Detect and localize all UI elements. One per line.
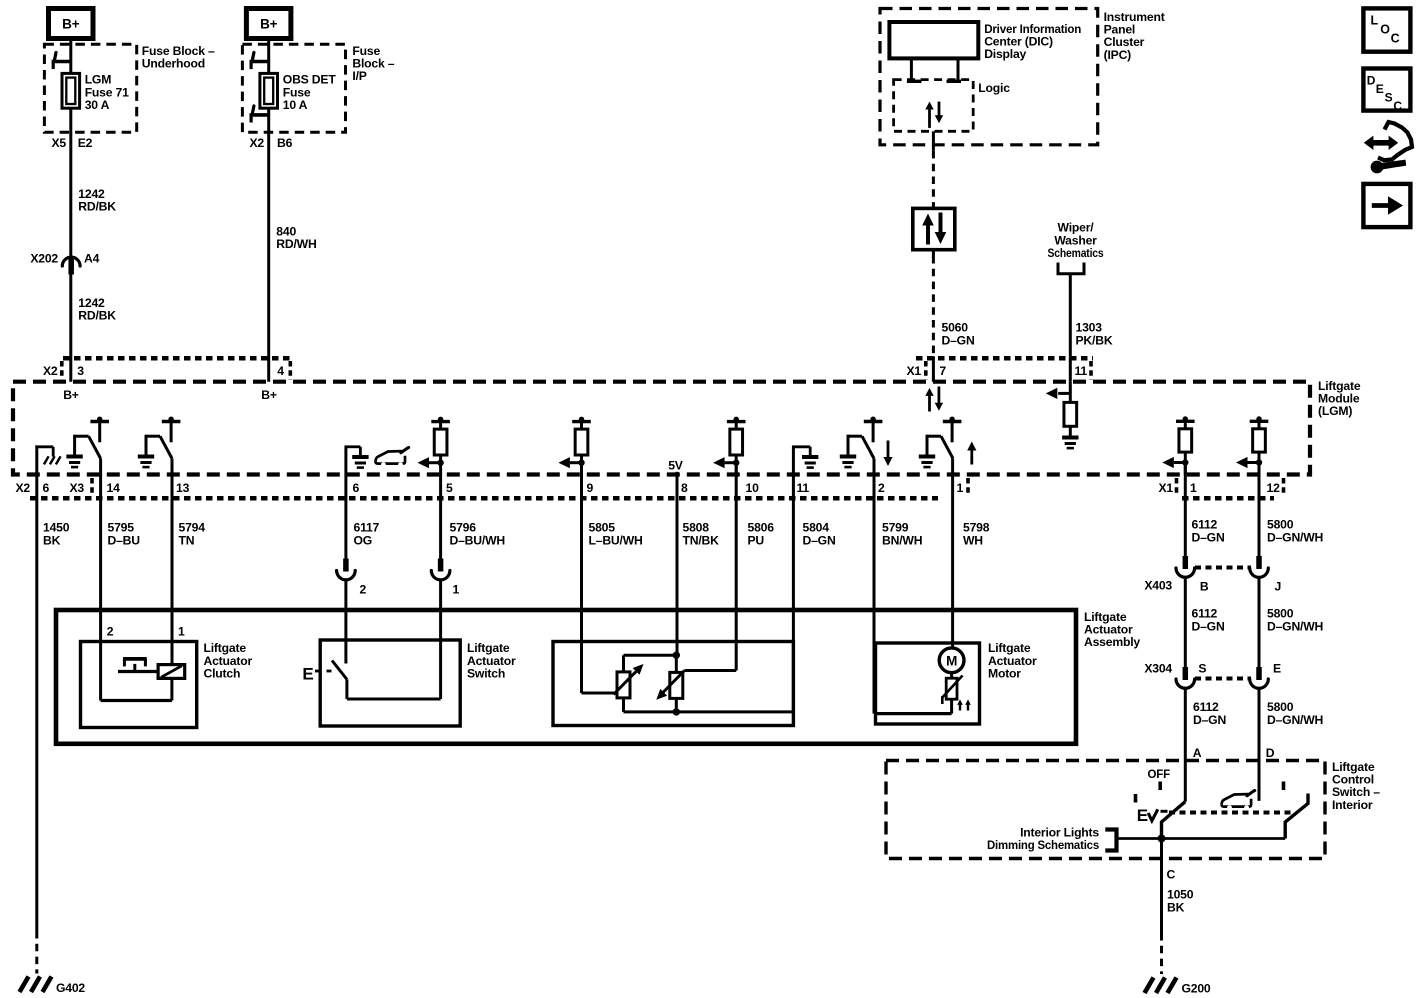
svg-text:X1: X1 <box>906 364 921 378</box>
LGM sensed input resistor pin 5 <box>418 417 450 475</box>
label LGM Fuse 71 30 A <box>85 73 129 112</box>
svg-text:Interior: Interior <box>1332 798 1373 812</box>
svg-text:X2: X2 <box>43 364 58 378</box>
svg-text:B+: B+ <box>63 388 79 402</box>
connector X2 row (pins 3,4) <box>43 358 290 380</box>
svg-text:M: M <box>946 653 957 668</box>
svg-text:D–BU: D–BU <box>108 533 141 547</box>
switch position OFF <box>1148 769 1171 790</box>
label Fuse Block - Underhood <box>142 44 215 71</box>
svg-text:1: 1 <box>178 625 185 639</box>
wire 5798 WH pin1 to motor <box>953 459 990 649</box>
ground G200 <box>1145 978 1211 996</box>
svg-text:B6: B6 <box>277 136 293 150</box>
label Logic <box>978 81 1010 95</box>
connector X304 pin E <box>1250 662 1281 689</box>
label Fuse Block - I/P <box>352 44 394 83</box>
svg-text:11: 11 <box>1075 364 1088 378</box>
svg-text:S: S <box>1198 662 1206 676</box>
svg-text:C: C <box>1391 32 1400 46</box>
svg-text:8: 8 <box>681 481 688 495</box>
svg-text:Display: Display <box>984 47 1026 61</box>
in-line connector X202 pin A4 <box>30 252 99 275</box>
svg-text:1: 1 <box>453 583 460 597</box>
svg-text:E: E <box>302 664 313 683</box>
wire 1050 BK pin C to G200 <box>1162 839 1194 975</box>
wire fuse to X202 <box>69 108 72 257</box>
svg-text:14: 14 <box>107 481 121 495</box>
svg-text:E: E <box>1137 806 1148 825</box>
svg-text:2: 2 <box>360 583 367 597</box>
fuse clip terminal top (OBS DET) <box>250 53 270 70</box>
svg-text:X2: X2 <box>249 136 264 150</box>
legend icon DESC <box>1363 69 1410 114</box>
in-line connector pin 1 (switch) <box>431 559 459 597</box>
liftgate icon in LGM <box>376 448 409 468</box>
off-page bracket wiper circuit <box>1058 263 1084 284</box>
svg-text:C: C <box>1167 868 1176 882</box>
fuse OBS DET Fuse 10 A <box>260 73 278 108</box>
svg-text:Dimming Schematics: Dimming Schematics <box>987 838 1099 852</box>
wire 5795 D-BU pin14 to clutch <box>101 459 141 701</box>
motor thermal protector <box>942 673 971 714</box>
svg-text:D–GN: D–GN <box>1193 713 1226 727</box>
wire label 5060 D-GN <box>942 321 975 348</box>
svg-text:9: 9 <box>587 481 594 495</box>
svg-text:5: 5 <box>446 481 453 495</box>
off-page bracket interior lights dimming <box>1105 830 1116 851</box>
svg-text:Assembly: Assembly <box>1084 635 1140 649</box>
svg-text:O: O <box>1380 23 1390 37</box>
liftgate position sensor box <box>553 642 793 726</box>
wire 5805 L-BU/WH pin9 to position sensor <box>582 463 643 693</box>
svg-text:TN/BK: TN/BK <box>683 533 720 547</box>
svg-text:B: B <box>1200 580 1209 594</box>
label Liftgate Actuator Clutch <box>204 641 253 680</box>
connector X1 row (pins 7,11) <box>906 358 1093 380</box>
svg-text:6: 6 <box>353 481 360 495</box>
svg-text:30 A: 30 A <box>85 98 110 112</box>
instrument panel cluster dashed box <box>880 9 1098 145</box>
svg-text:D–GN/WH: D–GN/WH <box>1267 530 1323 544</box>
svg-text:PK/BK: PK/BK <box>1076 333 1113 347</box>
svg-text:10 A: 10 A <box>283 98 308 112</box>
svg-text:2: 2 <box>107 625 114 639</box>
potentiometer 1 (left) <box>614 664 644 698</box>
svg-text:BK: BK <box>43 533 61 547</box>
svg-text:D–GN: D–GN <box>803 533 836 547</box>
legend icon LOC <box>1363 8 1410 51</box>
svg-text:I/P: I/P <box>352 69 366 83</box>
in-line connector pin 2 (switch) <box>337 559 367 597</box>
power terminal B+ (I/P) <box>246 9 291 39</box>
LGM pull-up resistor to ground pin 11 X1 <box>1046 382 1079 448</box>
svg-text:(IPC): (IPC) <box>1104 48 1132 62</box>
liftgate actuator switch <box>302 640 460 726</box>
wire 5800 D-GN/WH pin12 X1 to X403 <box>1259 463 1323 557</box>
control switch blade D <box>1285 794 1308 839</box>
svg-text:D–GN/WH: D–GN/WH <box>1267 619 1323 633</box>
svg-text:L–BU/WH: L–BU/WH <box>589 533 643 547</box>
svg-text:OFF: OFF <box>1148 769 1171 781</box>
svg-text:RD/BK: RD/BK <box>78 309 116 323</box>
wire label 1242 RD/BK lower <box>78 296 116 323</box>
svg-text:A: A <box>1193 746 1202 760</box>
svg-text:B+: B+ <box>261 388 277 402</box>
label Instrument Panel Cluster (IPC) <box>1104 10 1165 62</box>
wire 5794 TN pin13 to clutch <box>172 459 205 665</box>
wire label 1303 PK/BK <box>1076 321 1113 348</box>
logic dashed box <box>894 80 974 132</box>
svg-text:Clutch: Clutch <box>204 667 241 681</box>
connector X304 link <box>1195 677 1251 681</box>
svg-text:TN: TN <box>179 533 195 547</box>
wire label 1242 RD/BK upper <box>78 187 116 214</box>
svg-text:OG: OG <box>354 533 373 547</box>
wire 6117 OG pin6 to switch <box>346 475 380 559</box>
label Liftgate Control Switch - Interior <box>1332 760 1380 812</box>
svg-text:(LGM): (LGM) <box>1318 404 1352 418</box>
svg-text:RD/WH: RD/WH <box>276 237 316 251</box>
fuse LGM Fuse 71 30 A <box>62 73 80 108</box>
svg-text:12: 12 <box>1267 481 1281 495</box>
LGM sensed resistor pin 12 X1 <box>1236 416 1268 474</box>
svg-text:B+: B+ <box>260 17 278 32</box>
svg-text:E: E <box>1273 662 1281 676</box>
svg-text:7: 7 <box>939 364 946 378</box>
legend icon arrow <box>1363 184 1410 227</box>
svg-text:G402: G402 <box>56 981 85 995</box>
label OBS DET Fuse 10 A <box>283 73 337 112</box>
svg-text:A4: A4 <box>84 252 100 266</box>
serial data wire from DIC <box>932 131 935 208</box>
node 5V supply <box>668 459 684 475</box>
svg-text:X3: X3 <box>70 481 85 495</box>
svg-text:BK: BK <box>1167 900 1185 914</box>
wire 6117 OG below connector <box>344 580 347 664</box>
DIC display pedestal <box>907 58 961 81</box>
wire 6112 D-GN X304 to switch pin A <box>1185 689 1226 802</box>
LGM output switch pin 2 with down arrow <box>840 417 893 468</box>
svg-text:X2: X2 <box>15 481 30 495</box>
wire fuse to LGM pin 4 <box>267 108 270 382</box>
svg-text:Schematics: Schematics <box>1048 246 1104 260</box>
svg-text:X1: X1 <box>1158 481 1173 495</box>
label Liftgate Module (LGM) <box>1318 379 1361 418</box>
LGM bottom connector strip <box>30 478 1284 498</box>
liftgate actuator motor box <box>874 643 980 724</box>
wire 1450 BK to G402 <box>37 475 70 974</box>
svg-text:Motor: Motor <box>988 667 1021 681</box>
ground G402 <box>20 977 86 996</box>
fuse clip terminal top (LGM fuse) <box>52 53 72 70</box>
mechanical link dotted <box>1169 811 1291 815</box>
svg-text:X202: X202 <box>30 252 58 266</box>
LGM sensed input resistor pin 9 <box>558 417 590 475</box>
serial data symbol box <box>913 208 955 249</box>
svg-text:E2: E2 <box>78 136 93 150</box>
node B+ pin3 <box>63 388 79 402</box>
motor M1 <box>939 648 964 673</box>
node B+ pin4 <box>261 388 277 402</box>
liftgate icon in control switch <box>1222 791 1255 811</box>
svg-text:PU: PU <box>748 533 765 547</box>
svg-text:13: 13 <box>176 481 190 495</box>
svg-text:Logic: Logic <box>978 81 1010 95</box>
label Interior Lights Dimming Schematics <box>987 826 1099 853</box>
DIC display box <box>889 22 978 58</box>
liftgate actuator clutch <box>81 625 197 728</box>
label Driver Information Center (DIC) Display <box>984 22 1081 61</box>
wire common to blades <box>1117 835 1285 843</box>
wire 5796 D-BU/WH pin5 to switch <box>441 475 505 559</box>
liftgate control switch interior dashed box <box>886 761 1325 859</box>
svg-text:10: 10 <box>746 481 760 495</box>
LGM internal ground pin 11 <box>792 447 818 475</box>
wire 5800 D-GN/WH X403 to X304 <box>1259 578 1323 668</box>
svg-text:11: 11 <box>797 481 810 495</box>
svg-text:D: D <box>1266 746 1275 760</box>
svg-text:Underhood: Underhood <box>142 57 205 71</box>
power terminal B+ (underhood) <box>49 9 94 39</box>
svg-text:WH: WH <box>963 533 983 547</box>
fuse block underhood dashed box <box>44 44 136 132</box>
LGM serial data arrows pin 7 <box>925 387 943 412</box>
LGM sensed resistor pin 1 X1 <box>1162 416 1194 474</box>
svg-text:D–BU/WH: D–BU/WH <box>450 533 505 547</box>
pin labels X5 E2 <box>51 136 92 150</box>
wire 5799 BN/WH pin2 to motor <box>874 459 922 714</box>
svg-text:1: 1 <box>957 481 964 495</box>
wire 5804 D-GN pin11 to sensor <box>793 475 835 712</box>
svg-text:D–GN: D–GN <box>1192 530 1225 544</box>
connector X304 pin S <box>1144 662 1206 689</box>
logic serial data arrows <box>925 102 943 128</box>
label Liftgate Actuator Assembly <box>1084 610 1140 649</box>
svg-text:X304: X304 <box>1144 662 1172 676</box>
wire B+ to LGM fuse <box>69 39 72 74</box>
svg-text:D: D <box>1367 74 1376 88</box>
LGM internal stub pin X2-6 chassis ref <box>35 445 60 474</box>
label Liftgate Actuator Motor <box>988 641 1037 680</box>
svg-text:D–GN: D–GN <box>1192 619 1225 633</box>
fuse block I/P dashed box <box>242 44 345 132</box>
potentiometer 2 (right) <box>656 671 736 700</box>
LGM output switch pin 14 <box>66 417 109 468</box>
svg-text:4: 4 <box>277 364 284 378</box>
svg-text:D–GN: D–GN <box>942 333 975 347</box>
svg-text:5V: 5V <box>668 459 684 473</box>
svg-text:J: J <box>1275 580 1282 594</box>
connector X403 link <box>1195 566 1251 570</box>
svg-text:X403: X403 <box>1144 579 1172 593</box>
switch position mark right <box>1282 782 1286 791</box>
LGM output switch pin 1 with up arrow <box>919 417 977 468</box>
svg-text:D–GN/WH: D–GN/WH <box>1267 713 1323 727</box>
serial data wire to LGM pin 7 <box>932 250 935 382</box>
svg-text:Switch: Switch <box>467 667 505 681</box>
svg-text:B+: B+ <box>62 17 80 32</box>
LGM sensed input resistor pin 10 <box>713 417 745 475</box>
svg-text:G200: G200 <box>1182 982 1211 996</box>
LGM internal ground pin 6 <box>345 447 369 475</box>
svg-text:RD/BK: RD/BK <box>78 200 116 214</box>
pin labels X2 B6 <box>249 136 292 150</box>
switch position E mark <box>1136 794 1168 825</box>
svg-text:2: 2 <box>878 481 885 495</box>
svg-text:E: E <box>1376 82 1384 96</box>
svg-text:1: 1 <box>1190 481 1197 495</box>
svg-text:6: 6 <box>43 481 50 495</box>
wire wiper to LGM pin 11 <box>1069 283 1072 382</box>
wire label 840 RD/WH <box>276 225 316 252</box>
liftgate module LGM dashed box <box>13 382 1310 475</box>
wire 5796 below connector <box>439 580 442 699</box>
connector X403 pin B <box>1144 556 1209 594</box>
fuse clip terminal bottom (OBS DET) <box>250 106 270 123</box>
wire 5800 D-GN/WH X304 to switch pin D <box>1259 689 1323 801</box>
LGM output switch pin 13 <box>138 417 181 468</box>
LGM pin labels bottom <box>15 478 1280 496</box>
svg-text:L: L <box>1371 14 1379 28</box>
liftgate actuator assembly box <box>56 610 1076 744</box>
svg-text:C: C <box>1393 99 1402 113</box>
wire 6112 D-GN pin1 X1 to X403 <box>1185 463 1224 557</box>
wire 5806 PU pin10 to sensor <box>736 463 774 671</box>
control switch blade A <box>1162 802 1186 839</box>
label Wiper/Washer Schematics <box>1048 221 1104 260</box>
svg-text:BN/WH: BN/WH <box>882 533 922 547</box>
svg-text:3: 3 <box>77 364 84 378</box>
label Liftgate Actuator Switch <box>467 641 516 680</box>
wire 5808 TN/BK pin8 5V to sensor <box>677 475 719 656</box>
svg-text:X5: X5 <box>51 136 66 150</box>
connector X403 pin J <box>1250 556 1281 594</box>
wire 6112 D-GN X403 to X304 <box>1185 578 1224 668</box>
wire B+ to OBS DET fuse <box>267 39 270 74</box>
svg-text:S: S <box>1385 91 1393 105</box>
wire X202 to LGM pin 3 <box>69 275 72 382</box>
legend icon navigate arrows <box>1364 122 1412 173</box>
